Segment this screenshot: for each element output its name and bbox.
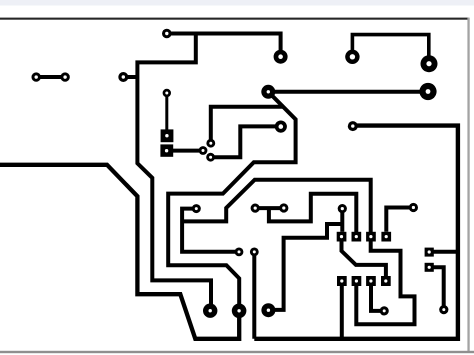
pad P6: [261, 85, 275, 99]
square pad RA: [337, 276, 347, 286]
square pad SQ1: [161, 129, 174, 142]
square pad SA: [425, 248, 434, 257]
wire net14 square SA tap: [429, 250, 458, 254]
wire net14 square RA drop: [340, 286, 344, 339]
wire net8 pad to pad1: [182, 209, 239, 252]
pad P5: [421, 55, 438, 72]
wire net6 thin drop to square SQ1: [165, 93, 168, 131]
square pad R3: [366, 232, 376, 242]
board right border: [467, 18, 469, 353]
square pad R1: [337, 232, 347, 242]
pad small above SQ1: [163, 89, 171, 97]
wire jumper W1: [36, 75, 65, 79]
pad P2: [274, 50, 288, 64]
wire net4 pad to pad: [211, 126, 281, 157]
wire net8 square R3 to square RB: [356, 242, 414, 325]
square pad R4: [381, 232, 391, 242]
pad P4: [345, 50, 359, 64]
wire net9 branch to square R2: [269, 194, 356, 232]
square pad R2: [352, 232, 362, 242]
pad net5: [206, 139, 215, 148]
pad net12: [380, 306, 389, 315]
wire net9 jumper pads: [255, 206, 284, 210]
top page band: [0, 0, 474, 6]
wire net3 P6 to padY: [168, 92, 295, 311]
pad net10: [338, 204, 347, 213]
pad P3: [118, 72, 128, 82]
pad net11: [409, 203, 418, 212]
wire net3 board outline to padY: [0, 165, 239, 339]
square pad RB: [352, 276, 362, 286]
wire net13 square SB to pad: [429, 267, 444, 309]
wire net10 pad to square R1: [340, 209, 344, 232]
wire net14 bottom bus and right riser: [254, 126, 458, 339]
pad net4 left: [206, 153, 215, 162]
pad P1: [162, 29, 172, 39]
pad X: [203, 304, 217, 318]
square pad RD: [381, 276, 391, 286]
wire net10 square R1 to square RD: [342, 241, 386, 276]
wire net12 square RC to pad: [371, 286, 384, 311]
wire net10 branch to padZ: [268, 224, 342, 310]
pad net8 upper: [192, 204, 201, 213]
pad Y: [232, 304, 247, 319]
pad net7: [199, 146, 208, 155]
pad Z: [261, 303, 275, 317]
pad net14 right mid: [348, 121, 358, 131]
pad net9 left: [251, 204, 260, 213]
square pad RC: [366, 276, 376, 286]
wire net2 P4 to P5: [352, 35, 428, 64]
wire net1 branch to padX: [137, 34, 211, 311]
board bottom border: [0, 351, 474, 353]
wire net7 square SQ2 to pad: [167, 149, 203, 153]
wire net8 branch to square R3: [182, 180, 371, 232]
pad2 net14: [250, 248, 259, 257]
pad net4 right: [275, 121, 287, 133]
pad W1a: [32, 72, 41, 81]
wire net3 P6 to P7: [268, 90, 428, 94]
square pad SB: [425, 263, 434, 272]
board top border: [0, 18, 469, 20]
square pad SQ2: [160, 144, 173, 156]
wire net1 P1 to P2: [167, 34, 281, 57]
pad net9 right: [279, 203, 288, 212]
wire net14 pad2 riser: [252, 252, 256, 339]
wire net5 pad to diagonal junction: [211, 107, 284, 144]
pad P7: [419, 83, 436, 100]
pad W1b: [60, 72, 69, 81]
pad net13: [439, 305, 448, 314]
wire net11 pad to square R4: [386, 208, 413, 232]
pad1 net8: [235, 248, 244, 257]
wire net1 stub P3: [123, 75, 137, 79]
